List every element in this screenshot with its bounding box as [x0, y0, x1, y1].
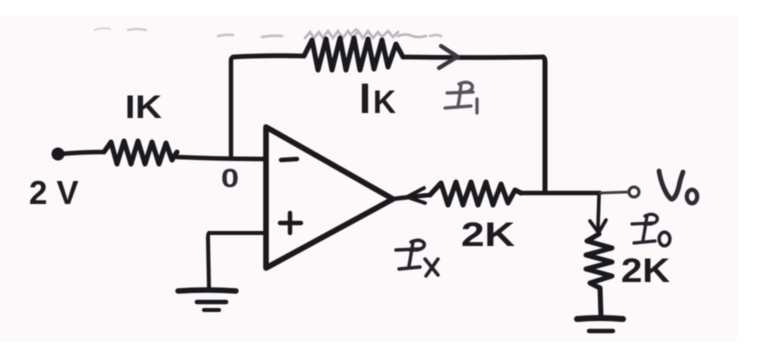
label Ix current	[396, 240, 438, 276]
op-amp U1	[266, 127, 393, 268]
label Io current	[632, 214, 657, 243]
arrow Ix direction (into op-amp)	[407, 188, 425, 203]
op-amp minus sign	[281, 159, 297, 160]
svg-text:I: I	[359, 75, 371, 123]
resistor R3 2K	[430, 182, 521, 205]
wire feedback dropper (top to output node)	[543, 57, 545, 191]
source terminal dot	[52, 148, 65, 161]
wire R4 to ground	[600, 288, 601, 317]
ground G2	[577, 318, 623, 331]
wire source to R1	[60, 152, 104, 154]
svg-text:IK: IK	[125, 89, 162, 125]
arrow I1 direction	[439, 46, 458, 68]
op-amp plus sign	[280, 213, 301, 233]
svg-text:2 V: 2 V	[29, 174, 79, 211]
ground G1	[178, 290, 236, 310]
wire top right segment	[403, 55, 543, 60]
label I1 current	[445, 82, 477, 113]
wire op-amp plus input	[208, 233, 266, 289]
wire op-amp output stub	[393, 195, 430, 199]
wire R1 to op-amp inverting input	[177, 157, 266, 159]
terminal Vo circle	[629, 187, 639, 197]
svg-text:2K: 2K	[461, 216, 516, 254]
wire R3 to node Vo	[521, 191, 600, 195]
svg-text:2K: 2K	[621, 252, 670, 290]
wire top left segment	[233, 56, 304, 57]
svg-text:0: 0	[221, 163, 239, 193]
wire feedback riser (node to top)	[231, 57, 235, 158]
wire node to output terminal	[600, 192, 628, 193]
resistor R1 1K	[104, 141, 177, 164]
arrow Io direction (down)	[590, 196, 606, 232]
resistor R2 1K feedback	[304, 38, 403, 70]
resistor R4 2K load	[586, 234, 612, 288]
svg-text:K: K	[373, 84, 396, 120]
label Vo	[659, 171, 697, 203]
